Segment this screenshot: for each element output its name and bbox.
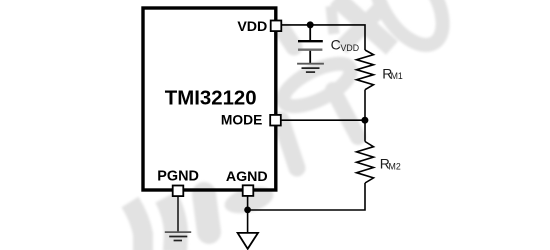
watermark stripe 2 (166, 197, 176, 250)
watermark stripe 3 (204, 194, 209, 232)
watermark background layer (130, 0, 456, 250)
ground under CVDD (297, 64, 324, 72)
wire MODE pin to node (281, 119, 366, 121)
wire PGND pin down (177, 196, 179, 232)
watermark ring top (362, 0, 457, 56)
watermark blob top-left (284, 32, 294, 47)
node dot at MODE/RM1/RM2 (361, 117, 368, 124)
watermark ring-left west arc (331, 6, 334, 34)
svg-text:VDD: VDD (341, 43, 360, 53)
ground triangle under AGND (238, 233, 258, 249)
svg-text:PGND: PGND (157, 169, 199, 185)
watermark band lower (281, 120, 297, 168)
wire cap top stem (309, 25, 311, 41)
pin square VDD (271, 21, 282, 32)
watermark band Q (341, 10, 379, 48)
wire RM2 bottom to AGND node (248, 183, 365, 210)
svg-text:M2: M2 (389, 161, 401, 171)
pin square MODE (270, 115, 281, 126)
node dot at AGND (244, 207, 251, 214)
svg-text:AGND: AGND (226, 169, 268, 185)
ground under PGND (165, 232, 191, 240)
watermark stripe 1 (130, 202, 143, 250)
svg-text:M1: M1 (391, 71, 403, 81)
wire AGND pin down to triangle ground (247, 196, 249, 233)
resistor RM1 (357, 50, 374, 90)
svg-text:VDD: VDD (237, 19, 267, 35)
watermark band lower-left of ring (333, 90, 358, 137)
wire cap bottom stem (309, 50, 311, 64)
pin square AGND (243, 185, 254, 196)
wire RM1 to RM2 through MODE node (364, 90, 366, 142)
IC box U1 (143, 8, 276, 190)
circuit layer (143, 8, 403, 249)
wire VDD pin to top-right corner and down (282, 25, 366, 50)
capacitor CVDD bottom plate (298, 49, 322, 51)
svg-text:TMI32120: TMI32120 (165, 88, 257, 110)
pin square PGND (173, 186, 184, 197)
watermark band P (336, 0, 392, 48)
watermark blob at AGND node (222, 182, 277, 218)
resistor RM2 (357, 142, 374, 184)
watermark big ring (277, 55, 356, 114)
svg-text:C: C (331, 37, 341, 53)
capacitor CVDD top plate (298, 40, 323, 42)
svg-text:MODE: MODE (221, 112, 262, 127)
node dot at VDD/CVDD (307, 21, 314, 28)
